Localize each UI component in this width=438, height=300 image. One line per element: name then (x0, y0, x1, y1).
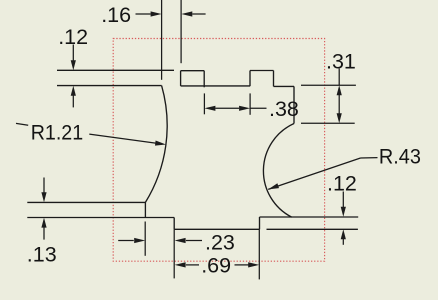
bottom channel floor (174, 228, 259, 230)
arrow .16 left-pointing at right ext (181, 11, 192, 16)
dim .23 right tail (186, 240, 202, 242)
tab2 right wall (273, 71, 275, 87)
arrow .12L up (71, 86, 76, 96)
tab2 top (250, 70, 274, 72)
svg-text:R1.21: R1.21 (31, 120, 83, 144)
svg-text:.69: .69 (201, 253, 231, 277)
svg-text:.13: .13 (27, 242, 57, 266)
dim .16 left tail (136, 13, 151, 15)
dim .12R upper line (342, 192, 344, 208)
dim .69 right tail (235, 264, 249, 266)
red dotted sheet boundary (113, 39, 324, 262)
arrow .16 right-pointing at left ext (151, 11, 162, 16)
svg-text:.12: .12 (58, 25, 88, 49)
dim .13 lower line (43, 226, 45, 240)
dim .23/.69 extension line 2 (173, 229, 175, 278)
top flange top line (57, 69, 174, 71)
tab1 right wall (203, 71, 205, 88)
channel right wall (259, 217, 261, 229)
right shoulder surface (274, 85, 295, 87)
dim .12R lower line (342, 239, 344, 245)
bottom-left flange bottom line (27, 217, 174, 219)
leader line R1.21 dash (16, 123, 28, 125)
dim .16 extension line right (180, 0, 182, 63)
bottom-left flange top line (27, 201, 145, 203)
arrow .12R down (341, 207, 346, 217)
arrow .69 left-pointing (175, 262, 186, 267)
dim .38 line between arrows (215, 107, 239, 109)
dim .38 extension line right (249, 93, 251, 114)
arrow .13 up (41, 218, 46, 228)
dim .69 extension line 3 (258, 229, 260, 279)
bottom-right flange top line (260, 216, 359, 218)
tab2 left wall (249, 71, 251, 87)
dim .69 left tail (186, 264, 199, 266)
dim .38 extension line left (203, 93, 205, 114)
dim .13 upper line (43, 178, 45, 195)
arrow .38 right-pointing (239, 106, 250, 111)
dim .23 extension line 1 (144, 222, 146, 256)
dim .16 extension line left (161, 0, 163, 80)
dim .16 right tail (192, 13, 205, 15)
leader line R.43 landing (361, 157, 378, 159)
channel left wall (173, 218, 175, 230)
bottom-right flange bottom line (267, 228, 358, 230)
arrow .13 down (41, 192, 46, 202)
leader line R1.21 diagonal (89, 134, 162, 144)
dim .31 stub from text (338, 69, 340, 86)
top flange bottom line (57, 85, 162, 87)
tab1 left wall (180, 71, 182, 86)
arrow .69 right-pointing (248, 262, 259, 267)
R.43 arc (right cove) (263, 124, 294, 218)
arrow .38 left-pointing (204, 106, 215, 111)
svg-text:.31: .31 (326, 50, 356, 74)
dim .12L lower line (72, 94, 74, 108)
post foot left wall (144, 202, 146, 217)
dim .31 extension line top (301, 84, 356, 86)
R1.21 arc (left side of post) (145, 86, 167, 203)
arrow R.43 leader (268, 183, 279, 189)
svg-text:R.43: R.43 (379, 145, 421, 169)
arrow .31 down (337, 113, 342, 123)
arrow .12R up (341, 229, 346, 239)
svg-text:.38: .38 (269, 97, 299, 121)
svg-text:.16: .16 (101, 3, 131, 27)
dim .12L upper line (72, 45, 74, 63)
channel floor under tabs (181, 85, 250, 87)
arrow .12L down (71, 60, 76, 70)
arrow .31 up (337, 85, 342, 95)
leader line R.43 diagonal (268, 158, 360, 189)
tab1 top (181, 70, 205, 72)
dim .31 extension line bottom (301, 122, 355, 124)
dim .31 line between arrows (338, 95, 340, 114)
right shoulder wall (293, 86, 295, 123)
arrow .23 left-pointing (175, 238, 186, 243)
arrow R1.21 leader (155, 141, 166, 146)
svg-text:.23: .23 (205, 231, 235, 255)
svg-text:.12: .12 (327, 172, 357, 196)
dim .38 tail to text (250, 107, 266, 109)
arrow .23 right-pointing (134, 238, 145, 243)
dim .23 left tail (118, 240, 134, 242)
